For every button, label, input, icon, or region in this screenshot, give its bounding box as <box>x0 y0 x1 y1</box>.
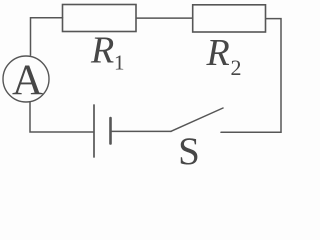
svg-text:R: R <box>90 30 114 72</box>
svg-text:1: 1 <box>114 51 125 75</box>
svg-text:2: 2 <box>231 55 242 80</box>
svg-text:R: R <box>206 32 230 74</box>
svg-text:A: A <box>12 57 43 104</box>
svg-text:S: S <box>178 130 200 165</box>
